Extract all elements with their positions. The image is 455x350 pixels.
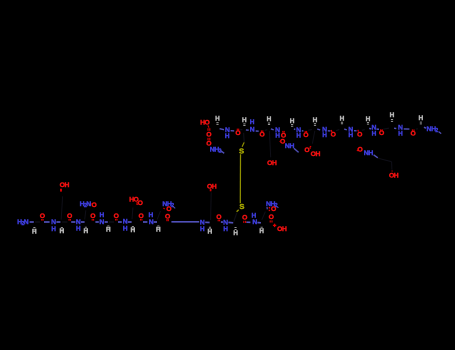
- top bond C-a5: [308, 129, 312, 132]
- glutamine side chain bond: [157, 211, 160, 219]
- top backbone NH 6: [348, 127, 353, 139]
- svg-text:H: H: [290, 118, 295, 125]
- top backbone NH 7b: [372, 125, 377, 138]
- aspartate top side O: [304, 146, 311, 154]
- cysteine CH2 bond bottom: [234, 210, 239, 222]
- side amide NH2 res9: [266, 201, 278, 210]
- side amide O res3: [89, 202, 97, 209]
- bond N3 to alpha C3: [81, 221, 85, 223]
- alpha C8 H label: [233, 228, 238, 237]
- backbone NH res5: [123, 219, 128, 233]
- top carbonyl O 7: [379, 129, 384, 137]
- top carbonyl O 5: [331, 130, 336, 139]
- top bond a8-N8: [394, 127, 396, 129]
- C-terminal OH: [277, 226, 287, 233]
- serine side OH: [267, 160, 277, 167]
- svg-text:H: H: [64, 182, 69, 189]
- top bond N8-C: [404, 128, 410, 130]
- svg-text:H: H: [242, 117, 247, 124]
- svg-text:O: O: [357, 131, 362, 138]
- svg-text:O: O: [67, 213, 72, 220]
- top carbonyl O 6: [357, 130, 362, 139]
- alpha C5 H label: [130, 226, 135, 234]
- alpha C9 H label: [259, 227, 264, 235]
- top alpha C3 H: [267, 116, 272, 125]
- alpha C2 H label: [59, 227, 64, 235]
- side amide NH2 res6: [162, 201, 175, 209]
- top bond a6-N6: [344, 128, 347, 131]
- svg-text:O: O: [269, 214, 274, 221]
- top alpha C7 H: [366, 116, 371, 124]
- top bond a4-N4: [294, 128, 295, 131]
- backbone NH res3: [76, 219, 81, 233]
- svg-text:O: O: [259, 132, 264, 139]
- C-terminal OH tick: [273, 224, 276, 227]
- top bond C-a6: [336, 130, 339, 131]
- long amide bond to N7: [171, 221, 199, 223]
- aspartate top side stem: [312, 131, 314, 144]
- svg-text:H: H: [313, 117, 318, 124]
- svg-text:H: H: [372, 131, 377, 138]
- svg-text:O: O: [303, 132, 308, 139]
- svg-text:N: N: [149, 219, 154, 226]
- top alpha C6 H: [340, 115, 345, 123]
- svg-text:H: H: [366, 116, 371, 123]
- top bond N4-C: [302, 130, 304, 132]
- top tyrosine OH: [389, 170, 399, 179]
- svg-text:H: H: [32, 229, 37, 236]
- top alpha C2 H: [242, 117, 247, 125]
- amide bond to N8: [221, 221, 223, 223]
- backbone NH res4: [99, 212, 104, 226]
- backbone NH res7: [200, 219, 205, 233]
- carbonyl O res5: [139, 213, 144, 220]
- carbonyl O res4: [114, 213, 119, 220]
- carbonyl O res8: [242, 215, 247, 224]
- backbone NH res2: [51, 219, 56, 233]
- tyrosine side chain stem: [210, 192, 213, 220]
- backbone NH res9: [252, 213, 258, 227]
- top HO-C bond ticks: [208, 125, 209, 127]
- serine side chain stem: [269, 131, 270, 157]
- top alpha C4 H: [290, 118, 295, 126]
- top C-terminal HO: [200, 120, 210, 127]
- top carbonyl O 8: [411, 129, 416, 137]
- top backbone NH 4: [296, 127, 301, 140]
- svg-text:H: H: [272, 160, 277, 167]
- top side amide O: [206, 138, 211, 148]
- disulfide S-S bond: [239, 154, 241, 203]
- backbone NH res6: [149, 212, 154, 226]
- svg-text:O: O: [206, 132, 211, 139]
- top carboxyl O: [206, 128, 211, 139]
- glutamate side chain bond: [61, 196, 62, 219]
- tyramine chain: [378, 158, 392, 169]
- top bond C-a8: [383, 128, 389, 129]
- side amide O res6: [163, 206, 171, 213]
- svg-text:H: H: [76, 226, 81, 233]
- side carboxyl OH res2: [60, 182, 70, 189]
- side carboxyl O res2: [60, 189, 62, 192]
- top bond N5-C: [328, 130, 331, 132]
- top side amide O 7: [357, 146, 363, 153]
- svg-text:O: O: [205, 120, 210, 127]
- bond N4 to alpha C4: [105, 221, 108, 223]
- top bond a3-N3: [271, 129, 274, 130]
- carbonyl O res3: [90, 213, 95, 220]
- asparagine side chain bond C9: [262, 212, 266, 220]
- carbonyl O res1: [40, 213, 45, 220]
- svg-text:O: O: [379, 130, 384, 137]
- top bond N1-C: [231, 130, 235, 132]
- side amide H2N res3: [80, 201, 92, 209]
- svg-text:H: H: [250, 119, 255, 126]
- top carbonyl O 1: [235, 129, 240, 137]
- svg-text:2: 2: [435, 128, 438, 134]
- alpha C3 H label: [83, 227, 88, 235]
- svg-text:O: O: [216, 214, 221, 221]
- svg-text:O: O: [90, 213, 95, 220]
- svg-text:H: H: [233, 230, 238, 237]
- C-terminal carbonyl O: [269, 214, 274, 223]
- top bond a1-N1: [220, 129, 224, 130]
- top alpha C9 H: [419, 115, 424, 124]
- top bond C-a9: [416, 128, 418, 130]
- svg-text:H: H: [123, 225, 128, 232]
- svg-text:O: O: [165, 213, 170, 220]
- svg-text:O: O: [114, 213, 119, 220]
- bond N8 to alpha C8: [228, 221, 233, 223]
- bond N6 to alpha C6: [154, 221, 157, 223]
- svg-text:O: O: [40, 213, 45, 220]
- aspartate side chain bond: [131, 208, 134, 220]
- alpha C1 H label: [32, 228, 37, 236]
- cysteine CH2 bond top: [242, 133, 244, 147]
- top terminal NH2: [424, 126, 441, 134]
- top carbonyl O 4: [303, 131, 308, 139]
- svg-text:H: H: [51, 226, 56, 233]
- sulfur S top: [239, 146, 244, 155]
- svg-text:H: H: [282, 226, 287, 233]
- amide bond to N4: [95, 221, 98, 223]
- top bond N2-C: [256, 130, 259, 132]
- bond N9 to alpha C9: [257, 222, 261, 224]
- svg-text:O: O: [331, 132, 336, 139]
- alpha C6 H label: [156, 226, 161, 234]
- bond alphaC4 to carbonyl: [109, 221, 114, 223]
- amide bond to N9: [246, 221, 250, 223]
- svg-text:H: H: [200, 226, 205, 233]
- tyrosine side OH res7: [207, 183, 217, 190]
- side carboxyl HO res5: [129, 196, 139, 203]
- carbonyl O res2: [67, 213, 72, 220]
- top bond C-a3: [265, 129, 268, 132]
- amide bond to N6: [143, 221, 147, 223]
- top bond a7-N7: [369, 127, 371, 130]
- svg-text:H: H: [212, 183, 217, 190]
- svg-text:O: O: [139, 213, 144, 220]
- svg-text:2: 2: [171, 203, 174, 209]
- top bond a2-N2: [246, 129, 249, 131]
- top bond N7-C: [377, 128, 379, 130]
- tyrosine OH tick: [210, 189, 212, 191]
- svg-text:H: H: [368, 150, 373, 157]
- svg-text:O: O: [411, 130, 416, 137]
- top carbonyl O 3: [281, 131, 286, 140]
- carbonyl O res6: [165, 213, 170, 221]
- svg-text:H: H: [390, 112, 395, 119]
- svg-text:H: H: [398, 130, 403, 137]
- svg-text:O: O: [92, 202, 97, 209]
- amide bond to N5: [118, 221, 122, 223]
- alpha C7 H label: [208, 227, 213, 235]
- svg-text:H: H: [419, 115, 424, 122]
- side amide O res9: [269, 206, 276, 213]
- bond C1a to carbonyl: [35, 221, 40, 223]
- svg-text:N: N: [24, 219, 29, 226]
- top bond C-a7: [362, 129, 365, 132]
- top side amide NH 4: [285, 143, 299, 153]
- top backbone NH 3: [275, 127, 280, 140]
- svg-text:O: O: [242, 215, 247, 222]
- amide bond to N2: [44, 221, 50, 223]
- backbone NH res8: [223, 219, 228, 233]
- top carbonyl O 2: [259, 130, 264, 138]
- top bond C-a2: [240, 128, 243, 130]
- top bond N6-C: [354, 130, 357, 132]
- svg-text:O: O: [166, 206, 171, 213]
- svg-text:H: H: [322, 132, 327, 139]
- aspartate top side OH: [311, 151, 321, 158]
- amide bond to N3: [71, 221, 75, 223]
- svg-text:H: H: [208, 228, 213, 235]
- svg-text:H: H: [289, 143, 294, 150]
- top alpha C5 H: [313, 117, 318, 125]
- top bond a5-N5: [317, 129, 320, 130]
- svg-text:H: H: [340, 115, 345, 122]
- top side amide NH 7: [364, 150, 378, 158]
- top backbone NH 5: [322, 127, 327, 140]
- svg-text:S: S: [239, 146, 244, 155]
- top side amide O 4: [280, 139, 286, 146]
- svg-text:H: H: [348, 132, 353, 139]
- svg-text:N: N: [99, 219, 104, 226]
- side carboxyl O res5: [136, 200, 143, 207]
- svg-text:N: N: [250, 127, 255, 134]
- top backbone NH 8: [398, 125, 403, 138]
- svg-text:H: H: [223, 226, 228, 233]
- bond N7 to alpha C7: [205, 221, 209, 223]
- sulfur S bottom: [239, 202, 244, 211]
- terminal amine H2N of bottom chain: [17, 219, 34, 227]
- top alpha C1 H: [215, 116, 220, 125]
- top side amide NH2: [210, 147, 224, 155]
- alpha C4 H label: [106, 226, 111, 234]
- top backbone NH 2: [250, 119, 255, 134]
- svg-text:H: H: [267, 116, 272, 123]
- svg-text:H: H: [215, 116, 220, 123]
- top alpha C8 H: [390, 112, 395, 122]
- svg-text:H: H: [394, 173, 399, 180]
- bond N5 to alpha C5: [128, 221, 132, 223]
- svg-text:O: O: [138, 200, 143, 207]
- svg-text:O: O: [304, 147, 309, 154]
- svg-text:H: H: [225, 133, 230, 140]
- bond N2 to alpha C2: [56, 221, 60, 223]
- bond alphaC2 to carbonyl: [62, 221, 67, 223]
- carbonyl O res7: [216, 214, 221, 221]
- svg-text:H: H: [315, 151, 320, 158]
- asparagine side chain bond: [85, 210, 86, 219]
- top backbone NH 1: [225, 127, 230, 140]
- svg-text:N: N: [252, 219, 257, 226]
- svg-text:O: O: [271, 206, 276, 213]
- svg-text:H: H: [296, 132, 301, 139]
- svg-text:O: O: [235, 130, 240, 137]
